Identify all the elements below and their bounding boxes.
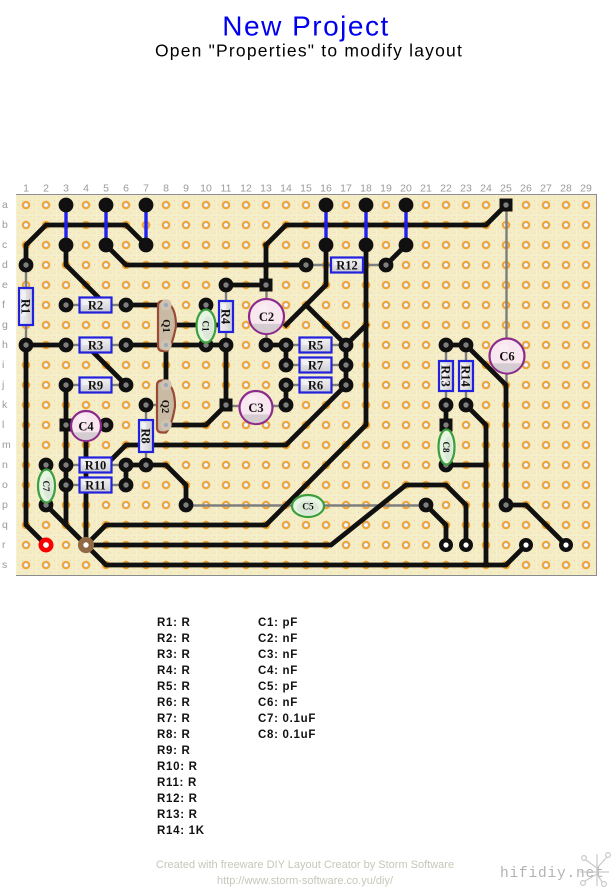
svg-text:R6: R6 xyxy=(308,379,323,393)
resistor R9 xyxy=(80,378,112,393)
svg-text:24: 24 xyxy=(480,183,492,195)
svg-text:k: k xyxy=(2,399,8,411)
junction (23,h) xyxy=(459,338,474,353)
wire (25,p)-(26,p)-(28,r) xyxy=(506,505,566,545)
wire (6,n)-(6,o) xyxy=(124,465,129,485)
R1 bottom lead xyxy=(25,324,27,345)
svg-text:C1: pF: C1: pF xyxy=(258,617,298,629)
svg-text:29: 29 xyxy=(580,183,592,195)
svg-text:r: r xyxy=(2,539,6,551)
svg-text:R7: R: R7: R xyxy=(157,713,191,725)
junction (3,h) xyxy=(59,338,74,353)
svg-text:New Project: New Project xyxy=(222,11,389,42)
svg-text:j: j xyxy=(1,379,4,391)
svg-text:C5: C5 xyxy=(302,503,314,513)
svg-text:C2: C2 xyxy=(259,310,274,324)
wire (23,h)-(25,j)-(25,p) xyxy=(466,345,506,505)
junction (7,k) xyxy=(139,398,154,413)
C7 top lead xyxy=(45,465,47,471)
Q2 base lead xyxy=(146,404,160,406)
svg-text:C6: C6 xyxy=(499,350,514,364)
junction (18,a) xyxy=(359,198,374,213)
svg-text:21: 21 xyxy=(420,183,432,195)
junction (16,a) xyxy=(319,198,334,213)
svg-text:R5: R: R5: R xyxy=(157,681,191,693)
resistor R7 xyxy=(300,358,332,373)
svg-text:hifidiy.net: hifidiy.net xyxy=(500,866,605,882)
svg-text:m: m xyxy=(2,439,11,451)
junction (6,h) xyxy=(119,338,134,353)
R13 top lead xyxy=(445,345,447,361)
svg-text:http://www.storm-software.co.y: http://www.storm-software.co.yu/diy/ xyxy=(217,875,394,887)
junction (17,j) xyxy=(339,378,354,393)
svg-text:R14: 1K: R14: 1K xyxy=(157,825,205,837)
wire (4,r)-(5,s)-(25,s)-(26,r) xyxy=(86,545,526,565)
jumper wire col 7 rows a-c xyxy=(144,205,147,245)
svg-text:14: 14 xyxy=(280,183,292,195)
junction (22,h) xyxy=(439,338,454,353)
svg-text:R4: R4 xyxy=(219,309,233,325)
svg-text:8: 8 xyxy=(163,183,169,195)
svg-text:13: 13 xyxy=(260,183,272,195)
R10 right lead xyxy=(111,464,126,466)
svg-text:e: e xyxy=(2,279,8,291)
junction (3,a) xyxy=(59,198,74,213)
svg-text:g: g xyxy=(2,319,8,331)
svg-text:6: 6 xyxy=(123,183,129,195)
svg-text:R11: R11 xyxy=(85,479,106,493)
svg-text:R14: R14 xyxy=(459,365,473,387)
junction (3,o) xyxy=(59,478,74,493)
junction (22,n) xyxy=(439,458,454,473)
wire (4,h)-(6,j) xyxy=(86,345,126,385)
svg-text:C8: C8 xyxy=(441,442,451,453)
junction (3,c) xyxy=(59,238,74,253)
svg-text:R2: R: R2: R xyxy=(157,633,191,645)
wire (1,d)-(1,c)-(2,b)-(6,b)-(7,c) xyxy=(26,225,146,265)
svg-text:25: 25 xyxy=(500,183,512,195)
wire (22,h)-(23,h) xyxy=(446,343,466,348)
svg-text:R7: R7 xyxy=(308,359,323,373)
junction (7,n) xyxy=(139,458,154,473)
R5 right lead xyxy=(331,344,346,346)
resistor R11 xyxy=(80,478,112,493)
svg-text:R2: R2 xyxy=(88,299,103,313)
wire (6,h)-(11,h) xyxy=(126,343,226,348)
via ring (28,r) xyxy=(561,540,571,550)
jumper wire col 18 rows a-c xyxy=(364,205,367,245)
svg-text:i: i xyxy=(2,359,4,371)
capacitor C7 xyxy=(38,470,55,503)
svg-text:C5: pF: C5: pF xyxy=(258,681,298,693)
junction (6,o) xyxy=(119,478,134,493)
R6 left lead xyxy=(286,384,300,386)
svg-text:11: 11 xyxy=(221,183,232,195)
svg-text:R3: R: R3: R xyxy=(157,649,191,661)
wire (4,r)-(16,r)-(20,o)-(22,o)-(23,p)-(23,r) xyxy=(86,485,466,545)
C7 bottom lead xyxy=(45,501,47,505)
wire (18,c)-(18,l)-(13,q)-(5,q)-(4,r) xyxy=(86,245,366,545)
wire (2,p)-(4,r) xyxy=(46,505,86,545)
junction (16,c) xyxy=(319,238,334,253)
junction (2,p) xyxy=(39,498,54,513)
capacitor C5 xyxy=(292,495,324,517)
wire (11,h)-(11,k) xyxy=(224,345,229,405)
svg-text:q: q xyxy=(2,519,8,531)
svg-text:R8: R: R8: R xyxy=(157,729,191,741)
jumper wire col 20 rows a-c xyxy=(404,205,407,245)
wire (6,f)-(8,f) xyxy=(126,303,166,308)
svg-text:R9: R: R9: R xyxy=(157,745,191,757)
perfboard base xyxy=(16,195,597,576)
svg-text:p: p xyxy=(2,499,8,511)
wire (23,k)-(24,l)-(24,s) xyxy=(466,405,486,565)
R2 left lead xyxy=(66,304,80,306)
svg-text:R1: R1 xyxy=(19,299,33,314)
wire (20,c)-(19,d) xyxy=(386,245,406,265)
svg-text:5: 5 xyxy=(103,183,109,195)
R9 left lead xyxy=(66,384,80,386)
solder pad (13,e) xyxy=(260,279,273,292)
R5 left lead xyxy=(286,344,300,346)
svg-text:16: 16 xyxy=(320,183,332,195)
svg-text:Created with freeware DIY Layo: Created with freeware DIY Layout Creator… xyxy=(156,859,454,871)
svg-text:R9: R9 xyxy=(88,379,103,393)
svg-text:R10: R: R10: R xyxy=(157,761,198,773)
svg-text:o: o xyxy=(2,479,8,491)
junction (3,f) xyxy=(59,298,74,313)
C1 top lead xyxy=(205,305,207,312)
R8 top lead xyxy=(145,405,147,420)
resistor R5 xyxy=(300,338,332,353)
C8 top lead xyxy=(445,430,447,432)
svg-text:28: 28 xyxy=(560,183,572,195)
svg-text:3: 3 xyxy=(63,183,69,195)
brown pad (4,r) xyxy=(81,540,92,551)
R12 right lead xyxy=(363,264,386,266)
wire (8,h)-(8,j) xyxy=(164,345,169,385)
svg-text:R13: R: R13: R xyxy=(157,809,198,821)
jumper wire col 5 rows a-c xyxy=(104,205,107,245)
wire (13,c)-(13,e) xyxy=(264,245,269,285)
junction (17,i) xyxy=(339,358,354,373)
solder pad (22,l) xyxy=(440,419,453,432)
junction (14,i) xyxy=(279,358,294,373)
R3 left lead xyxy=(66,344,80,346)
junction (11,e) xyxy=(219,278,234,293)
wire (3,c)-(3,d)-(5,f) xyxy=(66,245,106,305)
svg-text:R6: R: R6: R xyxy=(157,697,191,709)
svg-text:c: c xyxy=(2,239,7,251)
junction (5,c) xyxy=(99,238,114,253)
red pad (2,r) xyxy=(41,540,51,550)
resistor R1 xyxy=(19,288,34,325)
svg-text:C7: 0.1uF: C7: 0.1uF xyxy=(258,713,316,725)
R11 right lead xyxy=(111,484,126,486)
R12 left lead xyxy=(306,264,331,266)
wire (1,h)-(3,h) xyxy=(26,343,66,348)
wire (11,e)-(13,e) xyxy=(226,283,266,288)
junction (25,p) xyxy=(499,498,514,513)
capacitor C1 xyxy=(197,310,216,343)
junction (6,n) xyxy=(119,458,134,473)
C4 left lead xyxy=(66,424,74,426)
C2 top lead xyxy=(265,291,267,301)
wire (15,f)-(17,h) xyxy=(306,305,346,345)
R9 right lead xyxy=(111,384,126,386)
svg-text:2: 2 xyxy=(43,183,49,195)
svg-text:f: f xyxy=(2,299,5,311)
junction (15,d) xyxy=(299,258,314,273)
svg-text:Open "Properties" to modify la: Open "Properties" to modify layout xyxy=(155,41,463,61)
junction (3,n) xyxy=(59,458,74,473)
R4 top lead xyxy=(225,285,227,301)
junction (1,d) xyxy=(19,258,34,273)
watermark doodle xyxy=(580,853,610,887)
capacitor C2 xyxy=(249,299,284,341)
junction (20,c) xyxy=(399,238,414,253)
wire (1,h)-(1,q)-(2,r) xyxy=(26,345,46,545)
svg-text:9: 9 xyxy=(183,183,189,195)
wire (21,p)-(22,q)-(22,r) xyxy=(426,505,446,545)
svg-text:R5: R5 xyxy=(308,339,323,353)
svg-text:Q1: Q1 xyxy=(160,319,171,332)
junction (20,a) xyxy=(399,198,414,213)
legend resistor values xyxy=(157,617,205,837)
svg-text:R4: R: R4: R xyxy=(157,665,191,677)
capacitor C3 xyxy=(240,391,273,431)
C4 right lead xyxy=(98,424,106,426)
resistor R6 xyxy=(300,378,332,393)
svg-text:12: 12 xyxy=(240,183,252,195)
svg-text:R1: R: R1: R xyxy=(157,617,191,629)
capacitor C6 xyxy=(490,339,525,381)
C3 left lead xyxy=(226,405,242,407)
R3 right lead xyxy=(111,344,126,346)
svg-text:15: 15 xyxy=(300,183,312,195)
svg-text:R10: R10 xyxy=(85,459,107,473)
legend capacitor values xyxy=(258,617,316,741)
R10 left lead xyxy=(66,464,80,466)
junction (5,l) xyxy=(99,418,114,433)
wire (15,f)-(14,g) xyxy=(286,305,306,325)
transistor Q2 xyxy=(157,379,175,432)
resistor R2 xyxy=(80,298,112,313)
transistor Q1 xyxy=(158,299,176,351)
wire (13,c)-(14,b)-(24,b)-(25,a) xyxy=(266,205,506,245)
svg-text:C1: C1 xyxy=(201,321,211,332)
svg-text:l: l xyxy=(2,419,4,431)
junction (3,j) xyxy=(59,378,74,393)
R14 top lead xyxy=(465,345,467,361)
wire (4,m)-(4,r) xyxy=(84,441,89,545)
junction (14,h) xyxy=(279,338,294,353)
via ring (22,r) xyxy=(441,540,451,550)
capacitor C8 xyxy=(439,430,455,465)
svg-text:s: s xyxy=(2,559,7,571)
svg-text:19: 19 xyxy=(380,183,392,195)
via ring (26,r) xyxy=(521,540,531,550)
svg-text:n: n xyxy=(2,459,8,471)
svg-text:R3: R3 xyxy=(88,339,103,353)
wire (22,n)-(24,n) xyxy=(446,463,486,468)
C8 bottom lead xyxy=(445,462,447,465)
jumper wire col 16 rows a-c xyxy=(324,205,327,245)
R7 right lead xyxy=(331,364,346,366)
C6 bottom lead xyxy=(505,372,507,505)
capacitor C4 xyxy=(71,411,101,447)
svg-text:23: 23 xyxy=(460,183,472,195)
wire (16,c)-(16,e)-(15,f) xyxy=(306,245,326,305)
junction (22,k) xyxy=(439,398,454,413)
C2 bottom lead xyxy=(265,332,267,345)
resistor R13 xyxy=(439,361,454,391)
svg-text:C6: nF: C6: nF xyxy=(258,697,298,709)
svg-text:Q2: Q2 xyxy=(159,400,170,413)
wire (17,h)-(17,j) xyxy=(344,345,349,385)
junction (6,j) xyxy=(119,378,134,393)
C5 right lead xyxy=(322,504,426,506)
resistor R8 xyxy=(139,420,154,452)
svg-text:1: 1 xyxy=(23,183,29,195)
resistor R12 xyxy=(331,258,363,273)
R8 bottom lead xyxy=(145,452,147,465)
svg-text:C3: C3 xyxy=(248,401,263,415)
svg-text:C2: nF: C2: nF xyxy=(258,633,298,645)
junction (14,k) xyxy=(279,398,294,413)
svg-text:R12: R12 xyxy=(336,259,358,273)
junction (9,p) xyxy=(179,498,194,513)
R13 bottom lead xyxy=(445,391,447,405)
column ruler 1-29 xyxy=(23,183,592,195)
wire (22,k)-(22,l) xyxy=(444,405,449,425)
solder pad (3,l) xyxy=(60,419,73,432)
wire (3,j)-(3,q)-(4,r) xyxy=(66,385,86,545)
junction (11,h) xyxy=(219,338,234,353)
junction (23,k) xyxy=(459,398,474,413)
svg-text:26: 26 xyxy=(520,183,532,195)
junction (6,f) xyxy=(119,298,134,313)
resistor R4 xyxy=(219,301,234,332)
wire (5,c)-(6,d)-(15,d) xyxy=(106,245,306,265)
solder pad (25,a) xyxy=(500,199,513,212)
svg-text:b: b xyxy=(2,219,8,231)
junction (10,f) xyxy=(199,298,214,313)
jumper wire col 3 rows a-c xyxy=(64,205,67,245)
svg-text:C7: C7 xyxy=(41,481,51,492)
junction (13,h) xyxy=(259,338,274,353)
wire (5,n)-(6,m)-(14,m)-(17,j) xyxy=(106,385,346,465)
svg-text:R13: R13 xyxy=(439,365,453,387)
wire (14,j)-(14,k) xyxy=(284,385,289,405)
svg-text:20: 20 xyxy=(400,183,412,195)
svg-text:18: 18 xyxy=(360,183,372,195)
svg-text:h: h xyxy=(2,339,8,351)
resistor R14 xyxy=(459,361,474,391)
wire (13,h)-(14,h) xyxy=(266,343,286,348)
junction (2,n) xyxy=(39,458,54,473)
R6 right lead xyxy=(331,384,346,386)
junction (5,a) xyxy=(99,198,114,213)
C5 left lead xyxy=(186,504,294,506)
junction (14,j) xyxy=(279,378,294,393)
junction (7,c) xyxy=(139,238,154,253)
R11 left lead xyxy=(66,484,80,486)
svg-text:R11: R: R11: R xyxy=(157,777,197,789)
svg-text:4: 4 xyxy=(83,183,89,195)
R4 bottom lead xyxy=(225,332,227,345)
svg-text:10: 10 xyxy=(200,183,212,195)
junction (7,a) xyxy=(139,198,154,213)
svg-text:C3: nF: C3: nF xyxy=(258,649,298,661)
svg-text:R8: R8 xyxy=(139,428,153,443)
R2 right lead xyxy=(111,304,126,306)
svg-text:17: 17 xyxy=(340,183,352,195)
junction (10,h) xyxy=(199,338,214,353)
junction (1,h) xyxy=(19,338,34,353)
svg-text:22: 22 xyxy=(440,183,452,195)
svg-text:d: d xyxy=(2,259,8,271)
junction (21,p) xyxy=(419,498,434,513)
R14 bottom lead xyxy=(465,391,467,405)
svg-text:27: 27 xyxy=(540,183,552,195)
resistor R10 xyxy=(80,458,112,473)
resistor R3 xyxy=(80,338,112,353)
svg-text:R12: R: R12: R xyxy=(157,793,198,805)
R7 left lead xyxy=(286,364,300,366)
wire (6,n)-(8,n)-(9,o)-(9,p) xyxy=(126,465,186,505)
solder pad (11,k) xyxy=(220,399,233,412)
C3 right lead xyxy=(270,405,286,407)
wire (11,k)-(10,l)-(8,l) xyxy=(166,405,226,425)
junction (17,h) xyxy=(339,338,354,353)
row ruler a-s xyxy=(1,199,11,571)
wire (17,h)-(18,g) xyxy=(346,325,366,345)
C1 bottom lead xyxy=(205,340,207,345)
junction (18,c) xyxy=(359,238,374,253)
svg-text:C8: 0.1uF: C8: 0.1uF xyxy=(258,729,316,741)
svg-text:C4: nF: C4: nF xyxy=(258,665,298,677)
R1 top lead xyxy=(25,265,27,289)
svg-text:a: a xyxy=(2,199,8,211)
wire (14,h)-(14,i) xyxy=(284,345,289,365)
junction (19,d) xyxy=(379,258,394,273)
via ring (23,r) xyxy=(461,540,471,550)
C6 top lead xyxy=(505,211,507,340)
svg-text:C4: C4 xyxy=(78,420,94,434)
wire (8,g)-(11,g) xyxy=(168,323,226,328)
svg-text:7: 7 xyxy=(143,183,149,195)
